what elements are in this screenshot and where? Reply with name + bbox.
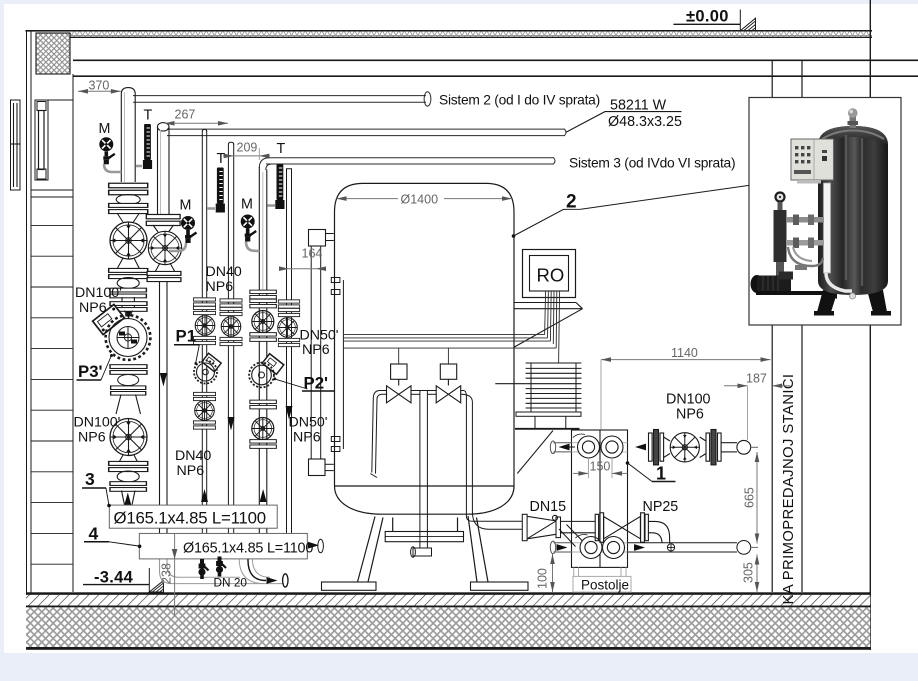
- svg-text:RO: RO: [537, 265, 565, 286]
- label 2 with leader: [512, 185, 749, 237]
- hoses: [788, 247, 823, 266]
- white standpipe: [824, 183, 831, 273]
- gate valve V3 on column B: [148, 231, 181, 264]
- valve DN40 lower on column C: [195, 401, 215, 421]
- window: [35, 100, 48, 180]
- 100: [552, 554, 554, 592]
- column E DN50: [250, 167, 277, 533]
- top row pump circles: [578, 436, 600, 458]
- small fittings on standpipe bottom: [795, 265, 807, 270]
- svg-text:DN40: DN40: [206, 264, 242, 280]
- base frame: [756, 291, 837, 299]
- 238 dimension: [160, 534, 178, 617]
- pump: [751, 275, 764, 293]
- reducer: [527, 516, 556, 539]
- 58211W pipe: [167, 128, 565, 130]
- svg-text:2: 2: [566, 192, 577, 213]
- Sistem 3 pipe: [266, 157, 554, 159]
- top fitting: [850, 116, 857, 128]
- coil base: [516, 412, 581, 416]
- shelf under RO: [514, 303, 583, 348]
- svg-text:100: 100: [536, 568, 550, 589]
- valve DN50 upper on column E: [252, 311, 274, 333]
- svg-text:P1: P1: [176, 327, 197, 346]
- svg-text:-3.44: -3.44: [94, 569, 134, 587]
- center pipe down through bottom: [411, 390, 436, 392]
- valve on column D: [221, 317, 241, 337]
- svg-text:Ø165.1x4.85 L=1100: Ø165.1x4.85 L=1100: [183, 541, 313, 557]
- electrode boxes and internal valves: [387, 364, 461, 403]
- column A DN100: [109, 88, 148, 309]
- pressure gauge M1 on column A: [99, 137, 115, 164]
- svg-text:Sistem 3 (od IVdo VI sprata): Sistem 3 (od IVdo VI sprata): [569, 156, 735, 171]
- pressure gauge M2 on column B: [181, 216, 197, 243]
- svg-text:Sistem 2 (od I do IV sprata): Sistem 2 (od I do IV sprata): [439, 93, 600, 108]
- pipe to wall cap: [721, 442, 737, 444]
- svg-text:150: 150: [590, 460, 611, 474]
- floor: [26, 592, 870, 595]
- column F: [278, 169, 300, 534]
- 665: [756, 452, 758, 544]
- svg-text:Ø48.3x3.25: Ø48.3x3.25: [608, 114, 682, 130]
- svg-text:1: 1: [656, 464, 666, 484]
- diameter dimension: [337, 193, 513, 207]
- svg-text:NP6: NP6: [78, 430, 106, 446]
- tank legs: [817, 290, 838, 312]
- 187: [724, 385, 748, 387]
- ceiling top line: [26, 30, 873, 32]
- jog down into pump suction: [559, 525, 582, 547]
- elbow from column E into sistem3: [259, 158, 272, 170]
- box2 outlet arrow + cap: [308, 542, 319, 549]
- gauges and thermometers: [99, 108, 286, 252]
- bottom elbow to drain line: [160, 559, 173, 584]
- svg-text:M: M: [241, 197, 253, 213]
- svg-text:209: 209: [237, 141, 258, 155]
- svg-text:4: 4: [89, 524, 99, 544]
- pipe to np25: [561, 520, 596, 522]
- RO box: [523, 250, 576, 298]
- svg-text:M: M: [180, 198, 192, 214]
- svg-text:DN 20: DN 20: [214, 576, 248, 590]
- drain valve DN20 no.1: [198, 559, 208, 579]
- svg-text:NP6: NP6: [206, 279, 234, 295]
- valve DN40 upper on column C: [195, 316, 215, 336]
- svg-text:NP6: NP6: [302, 342, 330, 358]
- tank body: [818, 126, 888, 295]
- svg-text:1140: 1140: [671, 346, 698, 360]
- bundle horizontals to left gauge line: [344, 334, 545, 336]
- svg-text:164: 164: [302, 247, 323, 261]
- column A lower: valve + reducer to manifold: [109, 395, 148, 506]
- gauge column G at vessel: [309, 230, 344, 476]
- gate valve V2 DN100 lower on column A: [110, 419, 147, 456]
- pedestal + Postolje: [573, 567, 631, 592]
- svg-text:P2': P2': [304, 374, 329, 393]
- support frame under vessel: [392, 518, 394, 532]
- svg-text:KA PRIMOPREDAJNOJ STANICI: KA PRIMOPREDAJNOJ STANICI: [781, 374, 797, 605]
- wall right edge: [72, 74, 74, 592]
- svg-text:T: T: [217, 151, 226, 167]
- label 1 with leader: [626, 461, 676, 483]
- legs: [358, 517, 376, 583]
- left suction: from valve1 left curving down, slanted open end: [372, 391, 387, 473]
- column B: [146, 123, 181, 584]
- svg-text:DN50': DN50': [289, 415, 328, 431]
- thermometer T1 on column B: [143, 124, 152, 169]
- svg-text:305: 305: [742, 562, 756, 583]
- svg-text:267: 267: [175, 108, 196, 122]
- drain valve DN20 no.2: [216, 557, 226, 577]
- svg-text:DN100: DN100: [666, 392, 711, 408]
- svg-text:NP6: NP6: [177, 463, 205, 479]
- svg-text:DN100': DN100': [75, 285, 122, 301]
- column D: [220, 142, 242, 533]
- svg-text:DN40: DN40: [175, 448, 211, 464]
- right pipe from valve2 down and out right: [461, 391, 523, 522]
- wires from RO to bundle: [344, 291, 560, 364]
- svg-text:NP6: NP6: [676, 407, 704, 423]
- ceiling zigzag band: [70, 32, 872, 37]
- svg-text:3: 3: [85, 469, 95, 489]
- coil feed wire: [559, 291, 560, 363]
- column C DN40: [193, 129, 215, 533]
- ceiling slab lines: [73, 59, 918, 61]
- svg-text:±0.00: ±0.00: [686, 8, 729, 26]
- svg-text:Ø1400: Ø1400: [401, 193, 439, 207]
- svg-text:187: 187: [746, 372, 767, 386]
- vessel nozzles: [331, 278, 340, 283]
- right building wall line: [869, 0, 871, 650]
- flange pairs left: [595, 514, 598, 540]
- bottom row pump circles: [580, 537, 602, 559]
- minus 3.44 level mark: [83, 568, 164, 592]
- svg-text:665: 665: [743, 487, 757, 508]
- internal dip pipes: [370, 391, 522, 558]
- pump P3': [93, 302, 151, 395]
- valve DN50 lower on column E: [252, 418, 274, 440]
- left stubs of pump block: [550, 441, 571, 554]
- thermometer T3 on column E: [275, 164, 284, 209]
- left flange stack: [649, 433, 653, 461]
- wall courses: [31, 225, 73, 564]
- plus-minus zero level mark: [673, 8, 755, 31]
- corridor walls: [771, 60, 773, 592]
- left wall top hatched box: [36, 33, 70, 74]
- 150: [573, 472, 588, 474]
- bowtie valves: [387, 386, 412, 403]
- pressure gauge M3 on column E: [241, 215, 257, 242]
- bowtie: [604, 517, 641, 539]
- svg-text:Postolje: Postolje: [581, 578, 629, 593]
- thermometer T2 on column C: [216, 168, 225, 213]
- svg-text:DN100': DN100': [74, 415, 121, 431]
- svg-text:DN15: DN15: [530, 499, 567, 515]
- outer window shutter: [11, 100, 21, 190]
- 305: [756, 555, 758, 593]
- Sistem 2 pipe: [133, 95, 426, 97]
- svg-text:T: T: [144, 108, 153, 124]
- svg-text:370: 370: [89, 79, 110, 93]
- left piping assembly: [774, 191, 785, 202]
- svg-text:M: M: [99, 121, 111, 137]
- svg-text:NP25: NP25: [643, 499, 679, 515]
- left wall outer double line: [26, 31, 28, 595]
- pump P1: [194, 353, 221, 383]
- svg-text:238: 238: [160, 563, 174, 584]
- valve on column F: [278, 318, 298, 338]
- svg-text:P3': P3': [78, 362, 103, 381]
- elbow down to discharge pipe: [648, 521, 669, 542]
- valve wheel: [670, 433, 699, 462]
- gate valve V1 DN100 on column A: [110, 222, 147, 259]
- svg-text:Ø165.1x4.85 L=1100: Ø165.1x4.85 L=1100: [114, 509, 266, 528]
- svg-text:T: T: [277, 141, 286, 157]
- flange at vessel pipe end: [522, 514, 527, 540]
- horizontal pipes to tank: [786, 217, 824, 223]
- pump P2': [249, 354, 284, 388]
- svg-text:NP6: NP6: [79, 300, 107, 316]
- right flange stack: [700, 437, 706, 458]
- cabinet: [791, 139, 834, 180]
- 1140: [601, 359, 771, 361]
- electrode drops: [398, 348, 400, 364]
- svg-text:NP6: NP6: [293, 430, 321, 446]
